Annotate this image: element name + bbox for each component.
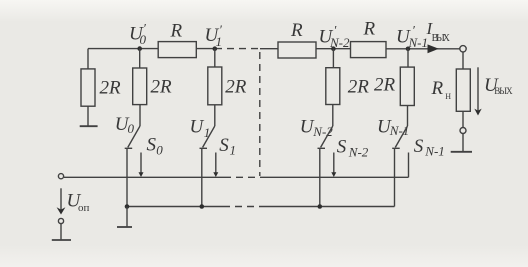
resistor Rn — [431, 69, 471, 111]
node U0' — [137, 46, 142, 51]
wire top rail left segment — [88, 48, 158, 50]
arrow Uvyh — [474, 67, 481, 115]
svg-text:N-1: N-1 — [389, 123, 410, 138]
wire dashed top rail break — [215, 48, 261, 50]
svg-text:N-1: N-1 — [408, 35, 429, 50]
wire drop to 2R box5 — [407, 49, 409, 67]
label UN-1 — [377, 116, 409, 138]
vertical dashed separator — [259, 52, 261, 176]
switch SN-2 — [318, 126, 337, 207]
wire S0 ground stub — [126, 207, 128, 227]
svg-text:2R: 2R — [374, 75, 396, 96]
svg-text:S: S — [414, 136, 424, 157]
label Uop — [67, 191, 90, 215]
node rail2 S0 — [125, 204, 130, 209]
svg-text:′: ′ — [143, 21, 146, 36]
svg-text:N-2: N-2 — [329, 35, 350, 50]
label Ivyh — [426, 19, 451, 44]
wire top rail R1 to U1' — [196, 48, 215, 50]
wire rail2 dashed break — [223, 206, 266, 208]
wire rail1 dashed break — [224, 176, 266, 178]
wire Rn to lower terminal — [462, 111, 464, 127]
svg-text:U: U — [190, 116, 205, 137]
node U'N-2 — [331, 46, 336, 51]
resistor 2R box1 — [81, 69, 121, 106]
wire output terminal to Rn — [462, 52, 464, 69]
svg-text:′: ′ — [412, 23, 415, 38]
node rail2 SN-2 — [318, 204, 323, 209]
wire below 2R box1 — [87, 106, 89, 125]
svg-text:2R: 2R — [151, 76, 173, 97]
svg-text:N-1: N-1 — [424, 144, 445, 159]
svg-text:N-2: N-2 — [348, 144, 369, 159]
svg-text:0: 0 — [128, 121, 135, 136]
node U'N-1 — [406, 47, 411, 52]
svg-text:2R: 2R — [348, 77, 370, 98]
wire rail2 left solid — [127, 206, 223, 208]
wire output ground stub — [462, 134, 464, 152]
resistor 2R box3 — [208, 67, 247, 105]
switch S1 — [200, 126, 219, 207]
resistor 2R box5 — [374, 67, 414, 105]
label U0' — [129, 21, 147, 48]
wire rail1 left solid — [64, 176, 224, 178]
svg-text:оп: оп — [78, 202, 90, 214]
wire drop to 2R box1 — [87, 49, 89, 69]
wire Uop ground stub — [60, 224, 62, 239]
svg-text:R: R — [431, 78, 444, 99]
wire 2R box2 to switch S0 — [139, 105, 141, 126]
svg-text:1: 1 — [230, 142, 237, 157]
label SN-2 — [337, 137, 369, 160]
wire drop to 2R box4 — [332, 49, 334, 68]
wire drop to 2R box3 — [214, 49, 216, 67]
svg-text:R: R — [170, 20, 183, 41]
node rail2 S1 — [200, 204, 205, 209]
wire drop to 2R box2 — [139, 49, 141, 68]
ground below output — [451, 151, 472, 153]
label Uvyh — [484, 75, 513, 96]
label UN-2 — [300, 116, 334, 139]
svg-text:S: S — [337, 137, 347, 158]
resistor 2R box2 — [133, 68, 172, 105]
resistor R3 — [351, 19, 387, 58]
resistor R1 — [158, 20, 196, 57]
svg-text:Н: Н — [445, 92, 451, 101]
svg-text:′: ′ — [334, 23, 337, 38]
wire 2R box3 to switch S1 — [214, 105, 216, 126]
label U'N-1 — [396, 23, 428, 50]
terminal circle Uop top — [58, 174, 63, 179]
ground below 2R box1 — [80, 125, 98, 127]
terminal circle Uop bottom — [58, 218, 63, 223]
arrow Uop — [57, 188, 66, 214]
terminal circle output top — [460, 46, 466, 52]
label U1 — [190, 116, 211, 140]
wire top rail to R2 — [260, 48, 278, 50]
label S0 — [147, 135, 164, 158]
wire rail2 right solid — [266, 206, 395, 208]
label U'N-2 — [319, 23, 351, 50]
node U1' — [213, 46, 218, 51]
arrow Ivyh current arrowhead — [428, 44, 439, 53]
wire 2R box5 to switch SN-1 — [407, 106, 409, 127]
svg-text:2R: 2R — [100, 78, 122, 99]
label SN-1 — [414, 136, 445, 159]
svg-text:2R: 2R — [225, 77, 247, 98]
svg-text:R: R — [363, 19, 376, 40]
svg-text:ВЫХ: ВЫХ — [494, 86, 513, 96]
ground below S0 — [117, 226, 132, 228]
wire rail1 right solid — [266, 176, 409, 178]
svg-text:S: S — [219, 135, 229, 156]
svg-text:ВЫХ: ВЫХ — [432, 33, 451, 44]
wire top rail R3 to output terminal — [386, 48, 460, 50]
terminal circle output bottom — [460, 128, 466, 134]
ground below Uop — [52, 239, 71, 241]
label U0 — [115, 114, 135, 136]
svg-text:′: ′ — [219, 22, 222, 37]
svg-text:0: 0 — [156, 142, 163, 157]
svg-text:S: S — [147, 135, 157, 156]
svg-text:1: 1 — [204, 125, 211, 140]
svg-text:R: R — [290, 20, 303, 41]
resistor R2 — [278, 20, 316, 58]
wire top rail R2 to R3 — [316, 48, 351, 50]
wire 2R box4 to switch SN-2 — [332, 105, 334, 127]
label S1 — [219, 135, 236, 158]
switch SN-1 — [392, 126, 408, 207]
label U1' — [205, 22, 223, 49]
resistor 2R box4 — [326, 68, 370, 105]
switch S0 — [125, 126, 144, 207]
